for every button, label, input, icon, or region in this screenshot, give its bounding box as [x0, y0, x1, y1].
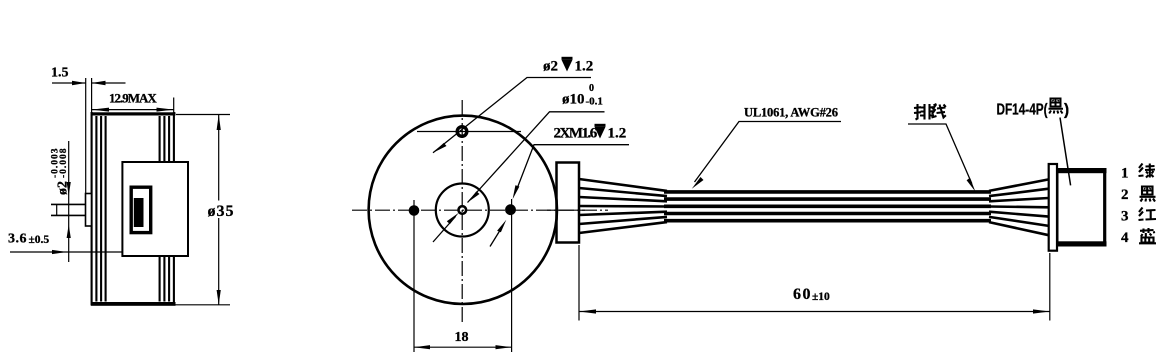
svg-text:1: 1	[1121, 166, 1129, 182]
dimension 18	[414, 199, 512, 352]
dimension 1.5	[52, 78, 126, 193]
green char	[1139, 164, 1156, 178]
svg-text:3.6: 3.6	[8, 232, 27, 247]
big circle o35	[369, 116, 557, 304]
label paixian (ribbon wire)	[914, 104, 946, 120]
motor body bottom bar	[91, 302, 176, 306]
boss (bearing hub)	[86, 194, 92, 227]
svg-text:4: 4	[1121, 230, 1129, 246]
dimension o35	[103, 115, 230, 305]
red char	[1139, 208, 1157, 221]
svg-text:60: 60	[793, 286, 812, 303]
right M1.6 hole	[505, 204, 516, 215]
body right lamination lines	[159, 116, 161, 302]
connector inner dark pin	[134, 198, 144, 227]
connector housing on side view	[122, 162, 188, 256]
motor body top bar	[91, 112, 176, 115]
svg-text:ø2: ø2	[543, 59, 558, 75]
o10 circle	[436, 184, 489, 237]
dimension o2 shaft with tolerance (rotated)	[68, 141, 70, 262]
dimension 60±10	[579, 245, 1050, 321]
svg-text:18: 18	[455, 330, 469, 345]
centerlines	[461, 100, 463, 325]
black char	[1140, 187, 1156, 202]
svg-text:±10: ±10	[812, 291, 830, 303]
svg-text:UL1061, AWG#26: UL1061, AWG#26	[744, 106, 838, 120]
top hole o2	[457, 127, 467, 137]
svg-text:2: 2	[1121, 187, 1129, 203]
svg-text:12.9MAX: 12.9MAX	[109, 91, 157, 106]
dimension 3.6±0.5	[10, 251, 122, 253]
svg-text:±0.5: ±0.5	[29, 234, 50, 246]
small opposing arrow through center	[433, 217, 456, 243]
DF14 connector flange	[1049, 164, 1057, 251]
ribbon band	[664, 192, 991, 221]
wire exit block	[557, 163, 580, 243]
left wire fan	[579, 179, 667, 233]
svg-text:DF14-4P(: DF14-4P(	[997, 102, 1049, 119]
svg-text:ø35: ø35	[208, 203, 235, 220]
svg-text:1.2: 1.2	[575, 59, 594, 75]
blue char	[1139, 228, 1156, 243]
svg-text:ø2: ø2	[56, 181, 71, 195]
right wire fan	[989, 179, 1049, 235]
svg-text:1.5: 1.5	[51, 66, 69, 81]
dimension 12.9MAX	[92, 98, 174, 114]
svg-text:2XM1.6: 2XM1.6	[554, 126, 598, 142]
svg-text:-0.008: -0.008	[59, 147, 69, 178]
center hole ring	[459, 206, 467, 214]
svg-text:1.2: 1.2	[608, 126, 627, 142]
svg-text:): )	[1064, 102, 1069, 119]
svg-text:0: 0	[589, 83, 594, 94]
connector inner socket	[131, 187, 151, 232]
shaft	[51, 204, 86, 216]
DF14 connector body	[1057, 169, 1106, 247]
body left lamination lines	[91, 112, 93, 306]
svg-text:3: 3	[1121, 209, 1129, 225]
leader to DF14 connector	[1060, 118, 1071, 186]
left M1.6 hole	[409, 205, 420, 216]
svg-text:ø10: ø10	[562, 92, 585, 108]
svg-text:-0.1: -0.1	[586, 96, 603, 108]
